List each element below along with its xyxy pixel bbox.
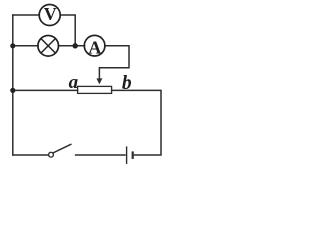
svg-text:b: b [122, 73, 132, 94]
svg-text:A: A [88, 38, 101, 58]
svg-text:a: a [69, 72, 79, 93]
svg-text:V: V [44, 4, 57, 24]
